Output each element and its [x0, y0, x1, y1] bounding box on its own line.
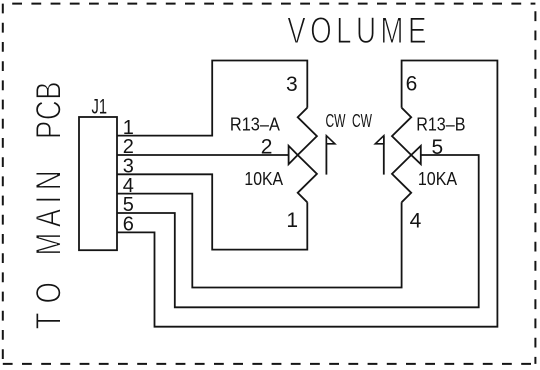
- R13-A wiper arrow: [289, 146, 298, 164]
- svg-text:MAIN: MAIN: [29, 170, 68, 255]
- svg-text:4: 4: [410, 210, 422, 233]
- svg-text:3: 3: [286, 73, 298, 96]
- wire J1 pin5 to R13-B wiper: [117, 155, 479, 307]
- potentiometer R13-B resistor element: [392, 108, 411, 203]
- CW arrow (R13-A): [326, 136, 335, 175]
- wire R13-B pin4 to J1 pin4: [117, 194, 402, 288]
- wire J1 pin2 to R13-A wiper: [117, 154, 289, 156]
- connector J1: [79, 117, 117, 250]
- svg-text:6: 6: [406, 73, 418, 96]
- wire J1 pin6 to R13-B pin6: [117, 61, 497, 327]
- wire R13-A pin1 to J1 pin3: [117, 174, 307, 249]
- svg-text:10KA: 10KA: [418, 168, 458, 189]
- svg-text:J1: J1: [92, 95, 108, 118]
- potentiometer R13-A resistor element: [298, 108, 317, 203]
- R13-B wiper arrow: [411, 146, 421, 164]
- svg-text:5: 5: [431, 136, 443, 159]
- CW arrow (R13-B): [375, 136, 384, 175]
- svg-text:CW: CW: [326, 111, 346, 131]
- svg-text:PCB: PCB: [29, 82, 68, 139]
- svg-text:CW: CW: [352, 111, 372, 131]
- svg-text:R13–A: R13–A: [230, 114, 281, 135]
- svg-text:1: 1: [286, 209, 298, 232]
- svg-text:10KA: 10KA: [244, 168, 283, 189]
- svg-text:R13–B: R13–B: [416, 114, 465, 135]
- svg-text:2: 2: [261, 135, 273, 158]
- wire J1 pin1 to R13-A pin3: [117, 61, 307, 136]
